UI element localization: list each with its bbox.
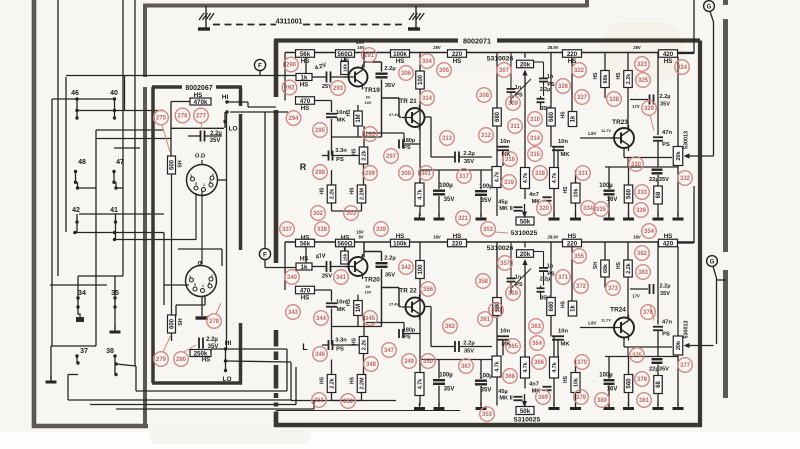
resistor 560 e (R): [624, 185, 633, 203]
svg-text:347: 347: [384, 348, 395, 354]
svg-text:680: 680: [549, 301, 555, 312]
resistor 250k (bottom socket): [190, 350, 211, 357]
svg-text:279: 279: [156, 357, 167, 363]
wire bus feeders (R): [284, 53, 286, 101]
resistor 2.2M (R): [357, 185, 366, 203]
svg-text:10V: 10V: [365, 101, 372, 105]
ref 371: [556, 270, 571, 285]
svg-text:45µ: 45µ: [498, 389, 507, 395]
ref 348: [364, 357, 379, 372]
svg-text:1: 1: [203, 183, 205, 187]
svg-text:SH: SH: [178, 318, 184, 325]
ref 302: [311, 206, 326, 221]
potentiometer 50k top with label 5310025: [516, 217, 534, 225]
svg-text:2.2M: 2.2M: [360, 187, 366, 199]
resistor 600 SH (top): [168, 156, 176, 174]
svg-text:35V: 35V: [385, 83, 395, 89]
wire emitter row (L): [420, 359, 497, 361]
resistor 4.7k d (R): [550, 168, 559, 189]
red leader 275: [162, 125, 170, 152]
svg-text:HS: HS: [561, 111, 567, 119]
resistor 1k input (L): [296, 263, 312, 270]
ref 366: [532, 355, 547, 370]
ref 369: [536, 390, 551, 405]
svg-text:334: 334: [583, 206, 594, 212]
svg-text:46: 46: [71, 90, 79, 97]
svg-text:100k: 100k: [393, 240, 407, 247]
ref 341: [334, 270, 349, 285]
ref 335: [594, 202, 609, 217]
svg-text:SH: SH: [178, 160, 184, 167]
ref 276: [175, 108, 190, 123]
svg-text:2.2k: 2.2k: [330, 378, 336, 389]
resistor 4.7k c (L): [521, 357, 530, 378]
svg-text:339: 339: [376, 227, 387, 233]
svg-text:366: 366: [534, 360, 545, 366]
svg-text:10V: 10V: [365, 291, 372, 295]
ref 278: [207, 314, 222, 329]
svg-text:220: 220: [567, 240, 578, 247]
resistor 10k HS (L): [571, 373, 580, 393]
ref 378: [635, 372, 650, 387]
svg-text:LO: LO: [222, 376, 231, 383]
svg-text:HS: HS: [616, 72, 622, 80]
svg-text:304: 304: [422, 59, 433, 65]
ref 368: [503, 369, 518, 384]
ref 327: [575, 90, 590, 105]
wire 46-40 row: [52, 98, 115, 100]
resistor 220 first (L): [448, 239, 467, 247]
svg-text:322: 322: [574, 68, 585, 74]
svg-text:L: L: [302, 342, 308, 352]
svg-text:42: 42: [72, 207, 80, 214]
svg-text:300: 300: [401, 171, 412, 177]
svg-text:HS: HS: [563, 375, 569, 383]
svg-text:5310026: 5310026: [487, 56, 514, 63]
svg-text:560Ω: 560Ω: [337, 240, 352, 247]
ref 344: [314, 311, 329, 326]
svg-text:HS: HS: [453, 58, 462, 65]
svg-text:22µ35V: 22µ35V: [649, 367, 669, 373]
ref 306: [399, 66, 414, 81]
svg-text:34: 34: [78, 290, 86, 297]
svg-text:10k: 10k: [574, 378, 580, 387]
wire socket link column: [226, 112, 228, 180]
ref 290: [284, 57, 299, 72]
svg-text:HS: HS: [346, 109, 352, 117]
svg-text:11.7V: 11.7V: [601, 319, 611, 323]
ref 359: [506, 286, 521, 301]
svg-text:2.2M: 2.2M: [360, 377, 366, 389]
svg-text:346: 346: [315, 352, 326, 358]
grounds row (R): [419, 213, 421, 219]
svg-text:11.7V: 11.7V: [601, 129, 611, 133]
svg-text:311: 311: [510, 124, 520, 130]
ref 382: [635, 246, 650, 261]
svg-text:336: 336: [636, 208, 647, 214]
ref 277: [194, 108, 209, 123]
red leader near 47n (R): [650, 115, 654, 131]
svg-text:326: 326: [558, 84, 569, 90]
svg-text:HI: HI: [222, 94, 229, 101]
red leader 279: [163, 335, 171, 352]
ref 357: [498, 256, 513, 271]
svg-text:HS: HS: [301, 234, 310, 241]
svg-text:20k: 20k: [520, 61, 531, 68]
wire supply bus (L): [285, 241, 694, 243]
resistor 680 a (L): [493, 298, 502, 316]
resistor 4.7k b (L): [492, 356, 501, 377]
wire input line to F (R channel): [66, 75, 296, 77]
svg-text:28V: 28V: [433, 45, 441, 50]
resistor 2.2k a (L): [359, 337, 368, 354]
svg-text:530013: 530013: [684, 131, 690, 149]
wire verticals switch field: [51, 99, 53, 346]
resistor 220 first (R): [448, 50, 467, 58]
svg-text:314: 314: [530, 136, 541, 142]
svg-text:HS: HS: [563, 186, 569, 194]
svg-text:27.4V: 27.4V: [389, 113, 399, 117]
ref 339: [374, 222, 389, 237]
ref 338: [315, 222, 330, 237]
svg-text:35V: 35V: [464, 159, 474, 165]
ref 340: [285, 270, 300, 285]
capacitor 1n PS b (R): [507, 88, 516, 90]
svg-text:25V: 25V: [322, 274, 332, 280]
svg-text:40: 40: [110, 90, 118, 97]
capacitor 10n MK (R): [331, 101, 333, 113]
svg-text:360: 360: [491, 308, 502, 314]
ref 350: [421, 354, 436, 369]
svg-text:351: 351: [314, 398, 325, 404]
svg-text:331: 331: [578, 171, 589, 177]
svg-text:HS: HS: [301, 105, 310, 112]
resistor 16k (L): [341, 251, 349, 264]
svg-text:16V: 16V: [607, 197, 618, 203]
svg-text:369: 369: [538, 395, 549, 401]
svg-text:16k: 16k: [343, 64, 349, 72]
svg-text:325: 325: [638, 78, 649, 84]
capacitor 180p PS (L): [398, 329, 400, 338]
svg-text:PS: PS: [403, 335, 411, 341]
ref 305: [437, 63, 452, 78]
svg-text:1: 1: [202, 284, 204, 288]
ref 326: [556, 79, 571, 94]
potentiometer 20k out (R): [673, 147, 683, 166]
svg-text:370: 370: [577, 360, 588, 366]
resistor 10k HS (R): [571, 183, 580, 203]
svg-text:307: 307: [499, 68, 510, 74]
ref 333: [635, 185, 650, 200]
svg-text:18V: 18V: [633, 235, 641, 240]
svg-text:100µ: 100µ: [439, 373, 453, 379]
svg-text:362: 362: [445, 324, 456, 330]
svg-text:2.2k: 2.2k: [330, 189, 336, 200]
ref 376: [641, 305, 656, 320]
svg-text:1M: 1M: [356, 304, 362, 312]
svg-text:383: 383: [638, 270, 649, 276]
svg-text:220: 220: [567, 51, 578, 58]
electrolytic 22u 35V (R): [652, 168, 663, 170]
svg-text:10k: 10k: [574, 189, 580, 198]
connector F top: [254, 59, 265, 70]
svg-text:4.7k: 4.7k: [418, 189, 424, 200]
resistor 68k (L): [601, 260, 610, 277]
svg-text:330: 330: [631, 162, 642, 168]
svg-text:2.2k: 2.2k: [362, 340, 368, 351]
svg-text:HS: HS: [320, 376, 326, 384]
resistor 1k input (R): [296, 74, 312, 81]
ref 310: [528, 112, 543, 127]
ref 292: [282, 80, 297, 95]
svg-text:100: 100: [418, 264, 424, 275]
ref 354: [642, 224, 657, 239]
svg-text:328: 328: [609, 97, 620, 103]
capacitor 1n PS a (R): [539, 77, 548, 79]
svg-text:HS: HS: [300, 256, 309, 263]
ref 321: [456, 211, 471, 226]
resistor 600 SH (bottom): [168, 315, 176, 333]
svg-text:3: 3: [189, 275, 191, 279]
svg-text:37: 37: [80, 348, 88, 355]
ref 361: [478, 312, 493, 327]
svg-text:310: 310: [530, 117, 541, 123]
svg-text:2.2k: 2.2k: [626, 74, 632, 85]
frame: amp box bottom edge: [274, 423, 702, 428]
wire emitter row right (R): [605, 166, 678, 168]
ref 296: [363, 127, 378, 142]
svg-text:371: 371: [558, 275, 569, 281]
svg-text:10n: 10n: [558, 139, 568, 145]
svg-text:68: 68: [656, 191, 662, 198]
svg-text:MK II: MK II: [499, 396, 513, 402]
svg-text:305: 305: [439, 68, 450, 74]
transistor TR19 (R): [349, 68, 368, 87]
wire row y214: [79, 213, 164, 215]
ref 323: [635, 57, 650, 72]
svg-text:45µ: 45µ: [498, 200, 507, 206]
svg-text:2.2µ: 2.2µ: [660, 284, 671, 290]
svg-text:353: 353: [483, 227, 494, 233]
svg-text:35V: 35V: [385, 273, 395, 279]
svg-text:HS: HS: [341, 234, 350, 241]
ref 308: [477, 88, 492, 103]
resistor 2.2k b (R): [327, 185, 336, 203]
svg-text:17V: 17V: [632, 104, 640, 109]
svg-text:275: 275: [156, 116, 167, 122]
svg-text:20k: 20k: [676, 150, 682, 160]
svg-text:4.7k: 4.7k: [523, 173, 529, 184]
capacitor 2.2u 35V base (L): [630, 288, 648, 290]
svg-text:2.2k: 2.2k: [362, 150, 368, 161]
svg-text:380: 380: [597, 398, 608, 404]
ref 279: [154, 352, 169, 367]
svg-text:358: 358: [478, 279, 489, 285]
svg-text:35V: 35V: [660, 291, 670, 297]
resistor 470 (L): [296, 286, 315, 294]
svg-text:470: 470: [300, 98, 311, 105]
capacitor 3.3n PS (L): [328, 340, 330, 350]
ref 353: [481, 222, 496, 237]
ref 345: [363, 311, 378, 326]
svg-text:SH: SH: [593, 262, 599, 269]
svg-text:68k: 68k: [603, 75, 609, 84]
svg-text:68k: 68k: [603, 264, 609, 273]
svg-text:HS: HS: [593, 72, 599, 80]
ref 334: [581, 201, 596, 216]
svg-text:335: 335: [596, 207, 607, 213]
svg-text:28.9V: 28.9V: [548, 235, 559, 240]
ref 380: [595, 393, 610, 408]
svg-text:4311001: 4311001: [276, 19, 303, 26]
svg-text:16V: 16V: [607, 387, 618, 393]
wire long routing lines bottom-left: [135, 366, 137, 391]
capacitor 3.3n PS (R): [328, 151, 330, 161]
svg-text:312: 312: [481, 133, 492, 139]
ref 337: [280, 222, 295, 237]
potentiometer 20k (R): [517, 60, 534, 68]
ref 379: [574, 390, 589, 405]
ref 317: [457, 169, 472, 184]
resistor 4.7k b (R): [492, 167, 501, 188]
svg-text:HS: HS: [664, 58, 673, 65]
red leader near 47n (L): [650, 305, 654, 321]
ref 297: [384, 149, 399, 164]
capacitor 2.2u 35V (socket bottom): [198, 338, 200, 349]
svg-text:HS: HS: [568, 233, 577, 240]
svg-text:100µ: 100µ: [439, 183, 453, 189]
svg-text:560: 560: [627, 378, 633, 389]
svg-text:8002067: 8002067: [185, 85, 212, 92]
ref 293: [331, 81, 346, 96]
wire HI/LO bottom: [211, 348, 287, 350]
svg-text:2.2k: 2.2k: [626, 263, 632, 274]
svg-text:35V: 35V: [444, 387, 455, 393]
wire tr23 base row (R): [580, 137, 614, 139]
svg-text:HS: HS: [396, 233, 405, 240]
ref 381: [637, 393, 652, 408]
capacitor 2.2u 35V (socket top): [200, 131, 202, 142]
svg-text:22µ35V: 22µ35V: [649, 177, 669, 183]
resistor 560 (R): [336, 50, 355, 58]
resistor 16k (R): [341, 62, 349, 75]
svg-text:PS: PS: [662, 332, 670, 338]
svg-text:2: 2: [212, 173, 214, 177]
svg-text:2.2µ: 2.2µ: [463, 341, 474, 347]
ground chassis left: [205, 6, 207, 29]
svg-text:377: 377: [680, 363, 691, 369]
svg-text:5310025: 5310025: [511, 230, 538, 237]
capacitor 10n MK (L): [331, 290, 333, 302]
resistor 56k (R): [296, 50, 315, 58]
svg-text:HS: HS: [561, 300, 567, 308]
svg-text:317: 317: [459, 174, 470, 180]
ref 314: [528, 131, 543, 146]
svg-text:HS: HS: [350, 187, 356, 195]
resistor 100 (L): [416, 261, 425, 279]
svg-text:38: 38: [106, 348, 114, 355]
resistor 2.2M (L): [357, 375, 366, 393]
wire pot wiper diagonal (R): [512, 79, 531, 98]
svg-text:600: 600: [170, 318, 176, 329]
svg-text:47n: 47n: [662, 320, 672, 326]
svg-text:MK: MK: [336, 118, 346, 124]
ref 372: [574, 279, 589, 294]
svg-text:HS: HS: [664, 233, 673, 240]
resistor 560 (L): [336, 239, 355, 247]
svg-text:TR23: TR23: [612, 119, 628, 126]
svg-text:2.2µ: 2.2µ: [384, 66, 395, 72]
ref 328: [607, 92, 622, 107]
resistor 68 (L): [654, 376, 663, 394]
svg-text:50k: 50k: [520, 218, 531, 225]
ref 295: [313, 123, 328, 138]
svg-text:1.8V: 1.8V: [588, 321, 597, 326]
wire 48-47 rows: [75, 172, 77, 183]
svg-text:2.2µ: 2.2µ: [384, 256, 395, 262]
svg-text:6V: 6V: [366, 96, 371, 100]
ref 329: [642, 101, 657, 116]
svg-text:4.7k: 4.7k: [495, 172, 501, 183]
resistor 100 (R): [416, 71, 425, 89]
svg-text:68: 68: [656, 381, 662, 388]
svg-text:220: 220: [452, 51, 463, 58]
resistor 2.2k a (R): [359, 147, 368, 164]
connector F bottom: [259, 248, 270, 259]
svg-text:357: 357: [500, 261, 511, 267]
svg-text:1k: 1k: [301, 264, 308, 271]
svg-text:HS: HS: [320, 187, 326, 195]
resistor 220 second (R): [563, 50, 582, 58]
svg-text:1k: 1k: [571, 115, 577, 122]
svg-text:315: 315: [530, 152, 541, 158]
svg-text:364: 364: [532, 341, 543, 347]
ref 346: [313, 347, 328, 362]
svg-text:319: 319: [504, 180, 515, 186]
svg-text:PS: PS: [336, 157, 344, 163]
frame: top frame line: [143, 4, 588, 8]
resistor 680 b (R): [547, 108, 556, 126]
svg-text:1.8V: 1.8V: [588, 131, 597, 136]
frame: amp box right edge: [698, 41, 702, 428]
resistor 100k (R): [391, 50, 410, 58]
svg-text:4.7k: 4.7k: [418, 379, 424, 390]
resistor 470 (R): [296, 97, 315, 105]
svg-text:323: 323: [637, 62, 648, 68]
frame: mid vertical frame line: [143, 4, 147, 77]
resistor 420 (L): [659, 239, 678, 247]
svg-text:PS: PS: [336, 347, 344, 353]
svg-text:324: 324: [677, 65, 688, 71]
svg-text:420: 420: [663, 51, 674, 58]
ref 364: [530, 336, 545, 351]
resistor 680 b (L): [547, 298, 556, 316]
svg-text:318: 318: [535, 171, 546, 177]
ref 313: [440, 131, 455, 146]
svg-text:343: 343: [288, 310, 299, 316]
ground chassis right: [415, 6, 417, 29]
resistor 2.2k b (L): [327, 375, 336, 393]
svg-text:28.9V: 28.9V: [548, 45, 559, 50]
svg-text:337: 337: [282, 227, 293, 233]
svg-text:332: 332: [680, 176, 691, 182]
capacitor 4.7u 25V (R): [312, 76, 326, 78]
svg-text:4n7: 4n7: [529, 382, 539, 388]
svg-text:HS: HS: [616, 261, 622, 269]
resistor 4.7k d (L): [550, 357, 559, 378]
resistor 100k (L): [391, 239, 410, 247]
svg-text:5: 5: [194, 283, 196, 287]
